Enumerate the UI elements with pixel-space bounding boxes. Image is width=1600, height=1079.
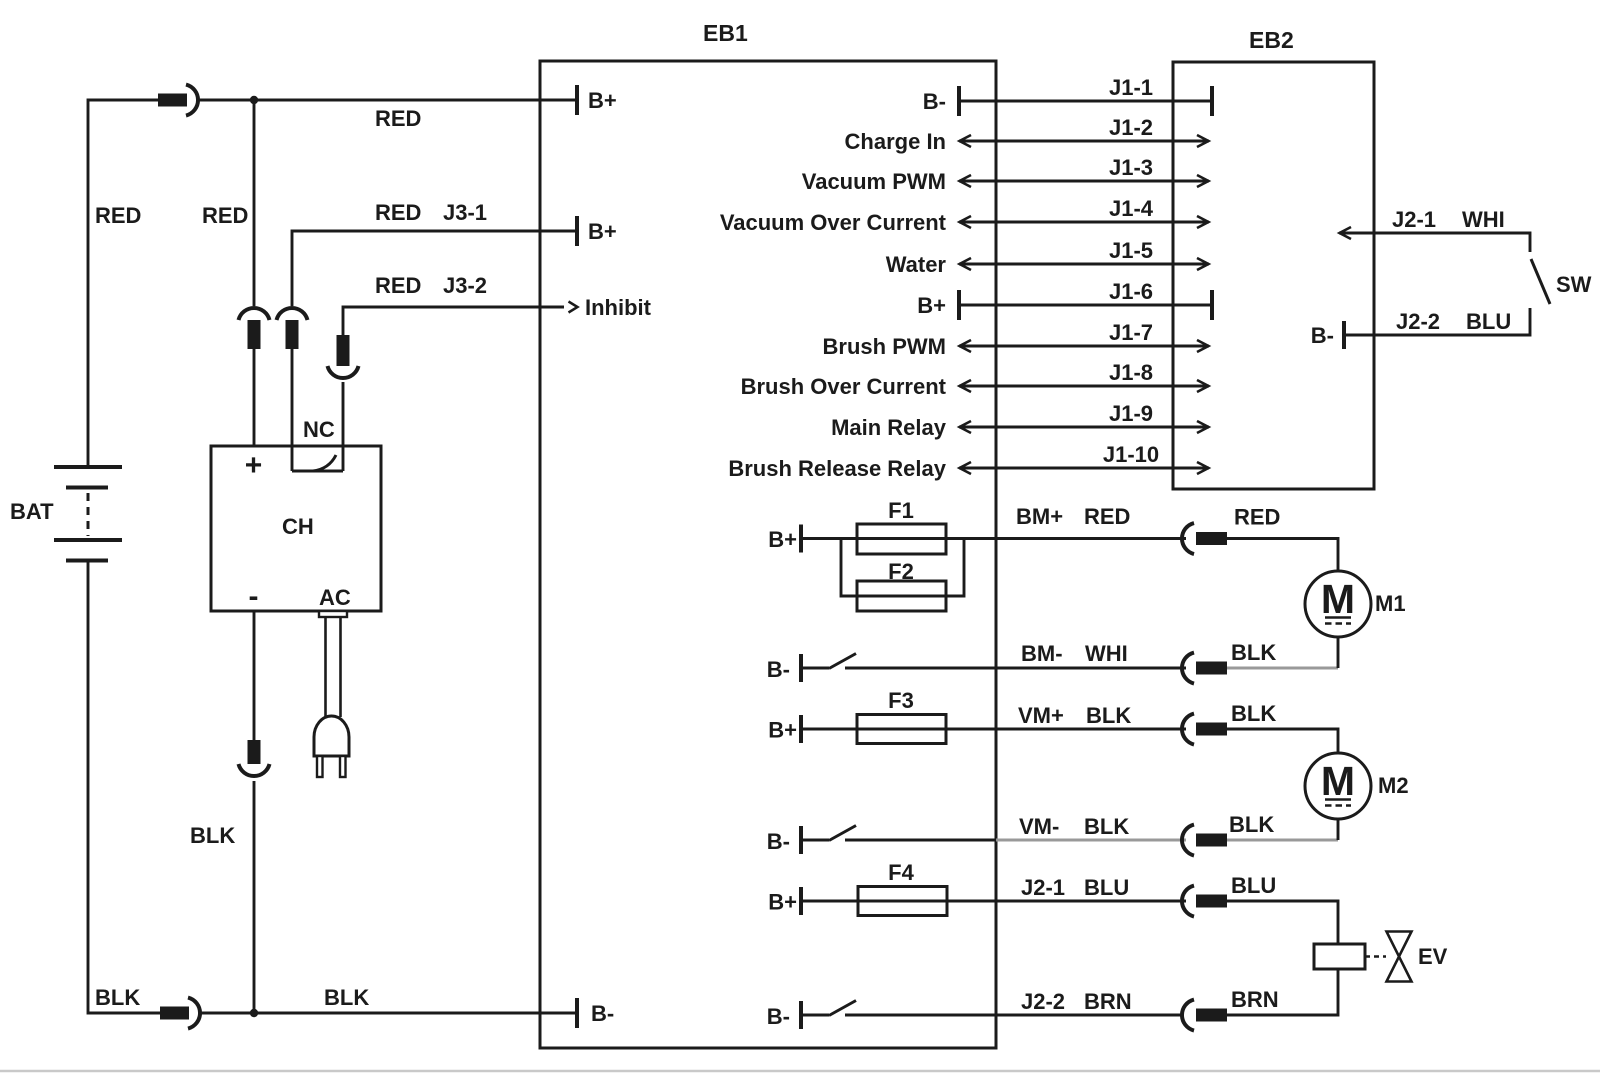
svg-text:RED: RED: [375, 106, 421, 131]
arrowhead Inhibit: [569, 302, 578, 313]
arrowhead J1-4 EB2 side: [1197, 216, 1209, 228]
svg-text:B-: B-: [767, 829, 790, 854]
svg-text:BLK: BLK: [1084, 814, 1129, 839]
svg-text:VM+: VM+: [1018, 703, 1064, 728]
svg-text:SW: SW: [1556, 272, 1592, 297]
wire J1-5 (Water): [959, 263, 1209, 266]
svg-text:BLU: BLU: [1466, 309, 1511, 334]
svg-text:NC: NC: [303, 417, 335, 442]
terminal J1-6 EB2: [1210, 290, 1214, 320]
wire into CH plus: [253, 349, 256, 446]
wire BLK to M2: [1227, 729, 1338, 753]
svg-text:BLK: BLK: [1086, 703, 1131, 728]
arrowhead Vacuum Over Current EB1 side: [960, 216, 972, 228]
svg-text:Brush Over Current: Brush Over Current: [741, 374, 947, 399]
wire B+ feed through F3: [801, 728, 1186, 731]
svg-text:EV: EV: [1418, 944, 1448, 969]
terminal B+ EB1 top: [575, 85, 579, 115]
wire BRN from EV: [1227, 969, 1338, 1015]
motor M1: [1305, 571, 1371, 637]
svg-text:Brush PWM: Brush PWM: [823, 334, 946, 359]
svg-text:BLK: BLK: [324, 985, 369, 1010]
arrowhead Brush PWM EB1 side: [960, 340, 972, 352]
wire RED J3-2: [343, 307, 564, 335]
terminal B- EB2: [1342, 321, 1346, 349]
wire NC right lead: [342, 382, 345, 471]
junction node charger positive tap: [250, 96, 258, 104]
wire J1-9 (Main Relay): [959, 426, 1209, 429]
svg-text:WHI: WHI: [1462, 207, 1505, 232]
wire J2-1 WHI to switch SW: [1339, 233, 1530, 252]
svg-text:Main Relay: Main Relay: [831, 415, 947, 440]
arrowhead J1-3 EB2 side: [1197, 175, 1209, 187]
wire J1-8 (Brush Over Current): [959, 385, 1209, 388]
svg-text:EB1: EB1: [703, 20, 748, 46]
valve EV symbol: [1365, 932, 1412, 982]
connector J3-1: [277, 308, 308, 349]
svg-text:BLU: BLU: [1084, 875, 1129, 900]
svg-text:F2: F2: [888, 559, 914, 584]
terminal B+ EB1 mid: [575, 216, 579, 246]
svg-text:J1-6: J1-6: [1109, 279, 1153, 304]
connector charger negative: [239, 740, 270, 776]
svg-text:Vacuum PWM: Vacuum PWM: [802, 169, 946, 194]
wire B+ feed through F1/F2: [801, 537, 1186, 540]
switch B- vacuum motor relay contact: [801, 826, 856, 855]
wire charger negative lead: [253, 611, 256, 740]
wire BLK from M1 (gray): [1227, 667, 1338, 670]
svg-text:BM-: BM-: [1021, 641, 1063, 666]
svg-text:M1: M1: [1375, 591, 1406, 616]
wire M1 bottom lead: [1337, 637, 1340, 668]
svg-text:J1-5: J1-5: [1109, 238, 1153, 263]
terminal B- EB1 bottom: [575, 998, 579, 1028]
arrowhead J1-10 EB2 side: [1197, 462, 1209, 474]
svg-text:B-: B-: [767, 657, 790, 682]
svg-text:RED: RED: [375, 273, 421, 298]
arrowhead Vacuum PWM EB1 side: [960, 175, 972, 187]
svg-text:B-: B-: [923, 89, 946, 114]
svg-text:Vacuum Over Current: Vacuum Over Current: [720, 210, 947, 235]
wire J2-2 BRN: [845, 1014, 1184, 1017]
svg-text:J1-1: J1-1: [1109, 75, 1153, 100]
connector J3-2: [328, 335, 359, 378]
AC cord: [319, 611, 347, 719]
wire RED to M1: [1227, 539, 1338, 572]
wire RED to EB1 B+: [196, 99, 577, 102]
fuse F2: [857, 581, 946, 611]
terminal B+ (vacuum motor feed): [799, 715, 803, 743]
junction node charger negative tap: [250, 1009, 258, 1017]
svg-text:M2: M2: [1378, 773, 1409, 798]
arrowhead Brush Release Relay EB1 side: [960, 462, 972, 474]
svg-text:Water: Water: [886, 252, 947, 277]
arrowhead J1-2 EB2 side: [1197, 135, 1209, 147]
wire BLU to EV: [1227, 901, 1338, 944]
svg-text:Inhibit: Inhibit: [585, 295, 652, 320]
svg-text:RED: RED: [202, 203, 248, 228]
wire VM- BLK (gray): [996, 839, 1186, 842]
svg-text:J1-3: J1-3: [1109, 155, 1153, 180]
svg-text:J3-1: J3-1: [443, 200, 487, 225]
svg-text:BAT: BAT: [10, 499, 54, 524]
terminal B+ (valve feed): [799, 887, 803, 915]
terminal B- EB1: [957, 86, 961, 116]
svg-text:J1-7: J1-7: [1109, 320, 1153, 345]
battery BAT: [54, 467, 122, 561]
AC plug: [314, 716, 349, 777]
svg-text:BLK: BLK: [190, 823, 235, 848]
wire BLK to EB1 B-: [198, 1012, 577, 1015]
connector battery negative: [160, 998, 200, 1029]
svg-text:BLK: BLK: [1231, 701, 1276, 726]
footer separator line: [0, 1070, 1600, 1073]
arrowhead Water EB1 side: [960, 258, 972, 270]
svg-text:J1-2: J1-2: [1109, 115, 1153, 140]
svg-text:J2-2: J2-2: [1396, 309, 1440, 334]
wire J1-2 (Charge In): [959, 140, 1209, 143]
svg-text:+: +: [245, 449, 263, 482]
svg-text:VM-: VM-: [1019, 814, 1059, 839]
wire charger positive lead: [253, 100, 256, 306]
svg-text:BLU: BLU: [1231, 873, 1276, 898]
svg-text:WHI: WHI: [1085, 641, 1128, 666]
svg-text:BRN: BRN: [1084, 989, 1132, 1014]
terminal B+ (brush motor feed): [799, 525, 803, 553]
svg-text:F3: F3: [888, 688, 914, 713]
svg-text:B+: B+: [917, 293, 946, 318]
svg-text:J1-4: J1-4: [1109, 196, 1154, 221]
svg-text:RED: RED: [375, 200, 421, 225]
fuse F3: [857, 715, 946, 744]
switch SW blade: [1531, 259, 1550, 304]
connector battery positive: [158, 85, 198, 116]
wire RED battery positive: [88, 100, 158, 467]
wire F2 parallel branch: [841, 539, 964, 597]
connector J2-2 valve: [1182, 1000, 1227, 1031]
wire J2-2 BLU from switch SW: [1344, 308, 1530, 335]
switch B- valve relay contact: [801, 1001, 856, 1030]
solenoid valve EV coil: [1314, 944, 1365, 969]
svg-text:Brush Release Relay: Brush Release Relay: [728, 456, 946, 481]
arrowhead J1-8 EB2 side: [1197, 380, 1209, 392]
wire BLK charger to battery bus: [253, 781, 256, 1013]
svg-text:BLK: BLK: [1229, 812, 1274, 837]
svg-text:F1: F1: [888, 498, 914, 523]
motor M2: [1305, 753, 1371, 819]
wire NC left lead: [291, 349, 294, 471]
arrowhead J1-7 EB2 side: [1197, 340, 1209, 352]
svg-text:RED: RED: [1234, 505, 1280, 530]
wire J1-4 (Vacuum Over Current): [959, 221, 1209, 224]
svg-text:CH: CH: [282, 514, 314, 539]
wire RED J3-1: [292, 231, 577, 306]
terminal J1-1 EB2: [1210, 86, 1214, 116]
connector VM+: [1182, 714, 1227, 745]
switch NC inside CH: [292, 455, 343, 471]
svg-text:Charge In: Charge In: [845, 129, 946, 154]
arrowhead J1-5 EB2 side: [1197, 258, 1209, 270]
connector VM-: [1182, 825, 1227, 856]
connector BM-: [1182, 653, 1227, 684]
block EB2: [1173, 62, 1374, 489]
svg-text:F4: F4: [888, 860, 914, 885]
arrowhead Main Relay EB1 side: [960, 421, 972, 433]
fuse F1: [857, 524, 946, 554]
terminal B+ EB1: [957, 290, 961, 320]
svg-text:AC: AC: [319, 585, 351, 610]
arrowhead Brush Over Current EB1 side: [960, 380, 972, 392]
wire VM- inside EB1: [845, 839, 996, 842]
connector BM+: [1182, 523, 1227, 554]
wire M2 bottom lead: [1337, 819, 1340, 840]
svg-text:BLK: BLK: [1231, 640, 1276, 665]
wire J1-6 (B+): [959, 304, 1212, 307]
svg-text:M: M: [1321, 576, 1355, 622]
svg-text:J2-2: J2-2: [1021, 989, 1065, 1014]
connector charger positive: [239, 308, 270, 349]
svg-text:RED: RED: [1084, 504, 1130, 529]
wire J1-3 (Vacuum PWM): [959, 180, 1209, 183]
charger CH: [211, 446, 381, 611]
svg-text:BM+: BM+: [1016, 504, 1063, 529]
wire J1-7 (Brush PWM): [959, 345, 1209, 348]
wire BLK from M2 (gray): [1227, 839, 1338, 842]
svg-text:B-: B-: [767, 1004, 790, 1029]
svg-text:J1-10: J1-10: [1103, 442, 1159, 467]
svg-text:B-: B-: [591, 1001, 614, 1026]
svg-text:J2-1: J2-1: [1021, 875, 1065, 900]
svg-text:BLK: BLK: [95, 985, 140, 1010]
svg-text:BRN: BRN: [1231, 987, 1279, 1012]
svg-text:B-: B-: [1311, 323, 1334, 348]
connector J2-1 valve: [1182, 886, 1227, 917]
svg-text:B+: B+: [768, 718, 797, 743]
svg-text:EB2: EB2: [1249, 27, 1294, 53]
svg-text:RED: RED: [95, 203, 141, 228]
fuse F4: [858, 887, 947, 916]
svg-text:M: M: [1321, 758, 1355, 804]
arrowhead J2-1 into EB2: [1340, 227, 1352, 239]
svg-text:J1-9: J1-9: [1109, 401, 1153, 426]
arrowhead J1-9 EB2 side: [1197, 421, 1209, 433]
wire B+ feed through F4: [801, 900, 1186, 903]
svg-text:B+: B+: [768, 890, 797, 915]
wire BM- WHI: [845, 667, 1186, 670]
svg-text:B+: B+: [588, 88, 617, 113]
wire J1-10 (Brush Release Relay): [959, 467, 1209, 470]
svg-text:J3-2: J3-2: [443, 273, 487, 298]
svg-text:-: -: [249, 580, 259, 613]
wire BLK battery negative: [88, 561, 160, 1014]
switch B- brush motor relay contact: [801, 654, 856, 683]
svg-text:B+: B+: [768, 527, 797, 552]
svg-text:B+: B+: [588, 219, 617, 244]
svg-text:J2-1: J2-1: [1392, 207, 1436, 232]
svg-text:J1-8: J1-8: [1109, 360, 1153, 385]
wire J1-1 (B-): [959, 100, 1212, 103]
block EB1: [540, 61, 996, 1048]
arrowhead Charge In EB1 side: [960, 135, 972, 147]
